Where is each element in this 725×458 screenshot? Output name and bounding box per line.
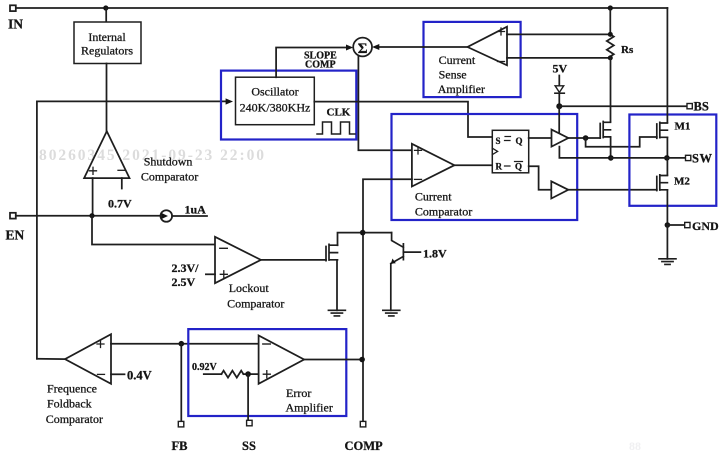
current sense amplifier U4 xyxy=(468,27,508,66)
svg-text:2.3V/: 2.3V/ xyxy=(172,261,200,275)
error amplifier blue box xyxy=(188,329,346,416)
svg-text:M2: M2 xyxy=(674,176,690,188)
svg-text:Foldback: Foldback xyxy=(47,397,92,411)
wire EN junction down to lockout comparator xyxy=(92,216,215,245)
svg-text:5V: 5V xyxy=(553,62,568,76)
wire BS line to pin xyxy=(559,105,687,107)
transistor pass mosfet Q1 xyxy=(600,122,610,139)
wire lockout mosfet source to ground xyxy=(336,260,338,310)
svg-text:Amplifier: Amplifier xyxy=(286,401,333,415)
svg-text:Comparator: Comparator xyxy=(46,412,103,426)
wire left rail from frequency foldback output to oscillator input xyxy=(37,101,226,358)
wire COMP net up to current comparator - input xyxy=(363,179,412,421)
node junction on IN rail above Internal Regulators xyxy=(103,5,108,10)
wire base stub to 1.8V xyxy=(403,251,420,253)
shutdown comparator U2 xyxy=(84,131,129,178)
wire after 1uA source xyxy=(172,215,207,217)
svg-text:Q: Q xyxy=(516,136,523,146)
wire lockout + input stub xyxy=(206,273,215,275)
power mosfets blue box xyxy=(629,115,716,206)
wire IN rail down to M1 drain xyxy=(666,8,668,123)
svg-text:Σ: Σ xyxy=(358,41,368,57)
wire current comparator output to latch R xyxy=(454,164,492,166)
wire jog from driver1 output to M1 gate xyxy=(586,137,657,147)
pin IN xyxy=(10,5,16,11)
wire SS down to pin xyxy=(247,374,249,420)
wire shutdown + input down to EN line xyxy=(92,178,94,216)
error amplifier U11 xyxy=(259,336,305,384)
diode D1 bootstrap xyxy=(555,86,564,93)
current source 1uA xyxy=(161,210,173,222)
latch U6 xyxy=(492,130,528,173)
transistor M2 xyxy=(657,175,668,191)
svg-text:Oscillator: Oscillator xyxy=(251,85,298,99)
svg-text:IN: IN xyxy=(8,17,23,32)
node junction on IN rail at Rs branch xyxy=(608,5,613,10)
wire FB line to error amp - input xyxy=(111,343,259,345)
node GND junction xyxy=(665,222,671,228)
pin EN xyxy=(10,213,16,219)
resistor Rs xyxy=(607,8,614,58)
wire slope comp from oscillator to summer xyxy=(276,48,346,78)
node EN junction xyxy=(89,213,94,218)
wire driver1 supply from BS xyxy=(558,106,560,132)
wire 0.92V to resistor xyxy=(204,373,222,375)
pin SS xyxy=(247,420,253,426)
svg-text:Internal: Internal xyxy=(88,30,126,44)
wire CSA output to summer xyxy=(377,46,468,48)
wire FB down to pin xyxy=(180,344,182,422)
svg-text:Current: Current xyxy=(439,53,476,67)
oscillator block blue box xyxy=(221,71,356,140)
svg-text:COMP: COMP xyxy=(345,439,384,453)
svg-text:SS: SS xyxy=(242,439,256,453)
lockout comparator U9 xyxy=(215,237,261,283)
svg-text:S: S xyxy=(496,136,501,146)
svg-text:0.4V: 0.4V xyxy=(127,369,152,383)
svg-text:1.8V: 1.8V xyxy=(423,247,447,261)
clock waveform glyph xyxy=(317,122,355,134)
wire lockout mosfet drain to COMP node xyxy=(338,233,392,246)
arrowhead into summer left xyxy=(346,45,353,51)
svg-text:88: 88 xyxy=(629,439,641,453)
pin FB xyxy=(178,421,184,427)
pin COMP xyxy=(360,421,366,427)
pin GND xyxy=(685,222,690,227)
svg-text:SW: SW xyxy=(692,152,712,166)
wire driver1 output xyxy=(568,137,600,139)
wire diode to BS node xyxy=(558,93,560,106)
svg-text:Current: Current xyxy=(415,190,452,204)
svg-text:CLK: CLK xyxy=(327,107,351,119)
svg-text:1uA: 1uA xyxy=(185,203,207,217)
wire IN rail to Internal Regulators xyxy=(105,8,107,22)
wire M2 drain to SW xyxy=(666,158,668,175)
svg-text:Regulators: Regulators xyxy=(81,44,133,58)
svg-text:Lockout: Lockout xyxy=(229,281,270,295)
pin SW xyxy=(686,155,691,160)
wire CSA - input from Rs bottom xyxy=(507,57,610,59)
svg-text:Rs: Rs xyxy=(621,44,634,56)
svg-text:2.5V: 2.5V xyxy=(172,275,196,289)
svg-text:Comparator: Comparator xyxy=(415,205,472,219)
wire latch Qbar to driver2 xyxy=(529,166,552,190)
node driver1 output junction xyxy=(583,135,589,141)
wire lockout output to mosfet gate xyxy=(261,259,326,261)
svg-text:Comparator: Comparator xyxy=(141,170,198,184)
transistor lockout mosfet Q2 xyxy=(326,244,338,260)
svg-text:R: R xyxy=(496,162,503,172)
node SW at pass mosfet xyxy=(608,155,614,161)
oscillator input arrowhead xyxy=(226,98,233,104)
svg-text:0.7V: 0.7V xyxy=(108,197,132,211)
svg-text:M1: M1 xyxy=(675,121,691,133)
svg-text:0.92V: 0.92V xyxy=(192,362,218,373)
wire shutdown - input stub to 0.7V xyxy=(121,178,123,188)
svg-text:Q: Q xyxy=(515,162,522,172)
svg-text:COMP: COMP xyxy=(305,60,336,71)
node COMP clamp junction xyxy=(360,230,366,236)
transistor M1 xyxy=(657,122,668,138)
wire resistor to + input xyxy=(243,373,258,375)
svg-text:Shutdown: Shutdown xyxy=(144,155,193,169)
transistor Q3 npn 1.8V clamp xyxy=(391,233,404,311)
ground symbol right xyxy=(659,259,676,265)
summer sigma xyxy=(353,38,372,57)
node SW junction xyxy=(664,155,670,161)
current comparator blue box xyxy=(392,114,578,220)
wire driver1 low rail to SW xyxy=(559,147,610,158)
wire latch Q to driver1 xyxy=(529,137,552,139)
wire Rs bottom down to pass mosfet xyxy=(610,58,612,122)
frequency foldback comparator U10 xyxy=(65,334,111,384)
wire error amp output to COMP net xyxy=(304,359,363,361)
wire CLK line from oscillator to latch S input xyxy=(314,102,492,137)
wire SW line to pin xyxy=(611,157,686,159)
wire driver2 output to M2 gate xyxy=(568,189,657,191)
svg-text:BS: BS xyxy=(694,100,709,114)
wire M1 source to SW xyxy=(666,138,668,158)
svg-text:Frequence: Frequence xyxy=(47,382,97,396)
wire GND line to pin xyxy=(667,224,684,226)
wire top IN rail xyxy=(16,7,667,9)
ground symbol under Q3 xyxy=(383,310,400,316)
svg-text:Error: Error xyxy=(286,386,311,400)
node error amp output junction xyxy=(359,357,365,363)
internal regulators U1 xyxy=(74,22,141,64)
ground symbol under lockout mosfet xyxy=(328,310,345,316)
wire Internal Regulators to shutdown comparator xyxy=(106,64,108,132)
current sense amplifier blue box xyxy=(424,22,521,97)
svg-text:FB: FB xyxy=(172,439,188,453)
arrowhead into summer right xyxy=(372,44,379,50)
driver buffer U7 high side xyxy=(552,130,569,147)
wire M2 source to GND xyxy=(666,190,668,225)
svg-text:240K/380KHz: 240K/380KHz xyxy=(240,101,311,115)
node FB junction xyxy=(179,341,185,347)
pin BS xyxy=(687,104,692,109)
node SS junction xyxy=(245,371,251,377)
oscillator U3 xyxy=(236,77,315,125)
current comparator U5 xyxy=(412,144,455,187)
resistor R1 xyxy=(221,371,243,378)
wire foldback - stub xyxy=(111,373,125,375)
wire summer output down to current comparator + input xyxy=(358,56,412,150)
wire GND to ground xyxy=(666,225,668,259)
node BS junction xyxy=(556,103,562,109)
wire CSA + input from Rs top xyxy=(507,33,610,35)
wire EN line xyxy=(16,215,161,217)
svg-text:GND: GND xyxy=(692,219,719,233)
wire pass mosfet source to SW line xyxy=(610,137,612,158)
svg-text:Amplifier: Amplifier xyxy=(438,82,485,96)
wire foldback output to left rail xyxy=(37,358,65,360)
driver buffer U8 low side xyxy=(551,181,568,198)
wire 5V to diode xyxy=(558,76,560,86)
svg-text:Sense: Sense xyxy=(439,68,467,82)
svg-text:Comparator: Comparator xyxy=(227,297,284,311)
svg-text:EN: EN xyxy=(6,228,25,243)
